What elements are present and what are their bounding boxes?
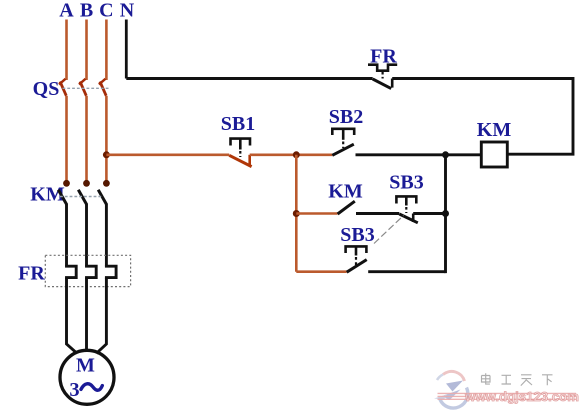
thermal relay FR NC contact fixed tick (391, 79, 394, 88)
svg-text:C: C (99, 0, 113, 22)
svg-text:B: B (80, 0, 93, 22)
watermark url lines (438, 393, 577, 399)
wire rung2 left orange (296, 212, 337, 215)
button SB2 actuator (332, 129, 354, 135)
wire phase C upper (105, 20, 108, 81)
switch QS pole A blade (59, 79, 66, 96)
button SB3 NC actuator stem (405, 196, 408, 205)
svg-text:N: N (120, 0, 135, 22)
wire phase A upper (65, 20, 68, 81)
button SB1 NC blade (229, 155, 251, 166)
thermal relay FR NC contact blade (373, 79, 392, 89)
button SB3 NC blade (399, 214, 418, 223)
svg-text:www.dgjs123.com: www.dgjs123.com (464, 389, 579, 404)
button SB1 NC fixed tick (248, 155, 251, 165)
wire rung2 right (413, 212, 445, 215)
button SB3 NO blade (347, 260, 367, 273)
svg-text:3: 3 (69, 379, 79, 401)
node junction on phase C to control circuit (103, 151, 110, 158)
contactor KM main pole B (78, 180, 90, 205)
wire phase A lower (65, 204, 68, 266)
wire rung3 right (368, 270, 445, 273)
wire rung2 middle (356, 212, 399, 215)
button SB3 NO actuator (346, 246, 367, 253)
button SB3 NC actuator (396, 196, 416, 203)
wire phase A mid (65, 96, 68, 184)
button SB3 NC actuator dashed link (405, 207, 407, 213)
thermal relay FR dashed box (45, 255, 130, 286)
svg-text:QS: QS (33, 78, 60, 100)
motor tilde (81, 384, 102, 390)
wire rung1 SB1 to SB2 orange (250, 154, 333, 157)
svg-text:A: A (59, 0, 74, 22)
svg-text:SB3: SB3 (389, 172, 423, 194)
contactor KM main linkage dashed (60, 196, 103, 198)
wire branch vertical orange (295, 155, 298, 272)
wire phase B to motor (85, 278, 88, 352)
wire rung1 SB2 to coil (356, 153, 482, 156)
button SB3 linkage dashed diagonal (374, 216, 404, 244)
button SB3 NO actuator stem (355, 246, 358, 255)
switch QS linkage dashed (63, 87, 109, 89)
node junction rung1 right branch (442, 151, 449, 158)
button SB1 actuator (231, 139, 251, 146)
switch QS pole B blade (79, 79, 86, 96)
switch QS pole C blade (99, 79, 106, 96)
wire phase C to motor (96, 278, 106, 354)
button SB1 actuator stem (239, 139, 242, 150)
node junction rung2 right (442, 210, 449, 217)
wire phase A to motor (67, 278, 78, 354)
wire phase C mid (105, 96, 108, 184)
wire phase B lower (85, 204, 88, 266)
button SB1 actuator dashed link (239, 151, 241, 157)
contactor KM main pole C (98, 180, 110, 205)
wire control rung 1 orange (106, 154, 229, 157)
wire top rail right of FR (392, 79, 573, 155)
svg-text:FR: FR (18, 263, 45, 285)
svg-text:M: M (76, 354, 95, 376)
button SB3 NO actuator dashed link (355, 257, 357, 265)
wire rung3 left orange (296, 270, 346, 273)
wire right branch vertical (444, 155, 447, 273)
svg-text:SB1: SB1 (221, 113, 255, 135)
button SB2 NO blade (332, 144, 354, 155)
button SB3 NC fixed tick (412, 214, 415, 223)
button SB2 actuator stem (342, 129, 345, 140)
contactor KM aux NO blade (338, 201, 355, 214)
wire phase B mid (85, 96, 88, 184)
svg-text:SB3: SB3 (340, 224, 374, 246)
thermal relay FR NC contact dashed stem (382, 72, 384, 79)
node junction rung1 branch (293, 151, 300, 158)
watermark logo swirl (434, 371, 468, 408)
svg-text:SB2: SB2 (329, 106, 363, 128)
thermal relay FR heater C (106, 265, 116, 279)
wire N top rail (126, 77, 372, 80)
coil KM box (481, 142, 507, 167)
thermal relay FR heater A (67, 265, 77, 279)
wire phase C lower (105, 204, 108, 266)
button SB2 actuator dashed link (342, 142, 344, 149)
thermal relay FR heater B (87, 265, 97, 279)
watermark text dian gong tian xia (482, 373, 553, 385)
motor M circle (60, 350, 114, 404)
wire phase B upper (85, 20, 88, 81)
thermal relay FR NC contact actuator (368, 65, 397, 71)
wire neutral N vertical (125, 20, 128, 79)
contactor KM main pole A (58, 180, 70, 205)
svg-text:KM: KM (477, 119, 512, 141)
node junction rung2 left (293, 210, 300, 217)
svg-text:KM: KM (328, 181, 363, 203)
